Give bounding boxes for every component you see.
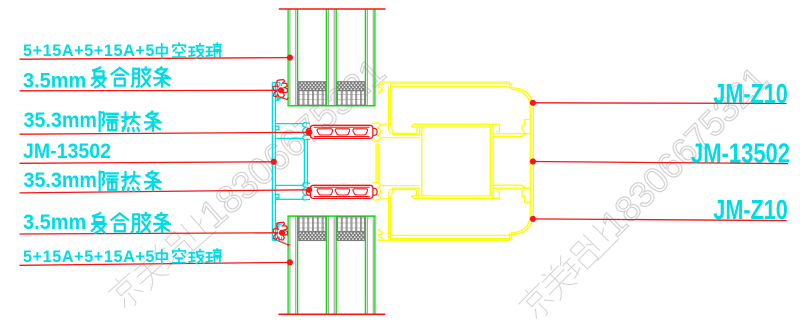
red gasket top (3.5mm composite) — [273, 80, 288, 98]
bottom glass top edge — [287, 215, 375, 217]
yellow bottom jaw links — [381, 185, 389, 199]
yellow profile bottom edge second line — [391, 233, 514, 239]
yellow left wall mid pair — [375, 143, 377, 183]
yellow profile top edge outer + corner step — [380, 82, 513, 88]
cyan top jaw gripping thermal break — [303, 123, 310, 140]
leader line label2 to top gasket — [20, 89, 279, 92]
svg-text:3.5mm: 3.5mm — [23, 211, 86, 235]
cyan wall notch 1 — [275, 97, 279, 101]
svg-text:JM-Z10: JM-Z10 — [713, 80, 788, 110]
cyan horizontal rib bottom — [275, 198, 303, 200]
watermark left diagonal 京美铝业18306675321 — [102, 51, 394, 316]
yellow T-flange bottom lip — [411, 196, 499, 198]
yellow bottom jaw claw — [372, 182, 381, 200]
cyan profile inner left wall — [274, 83, 276, 241]
bottom glass spacer block 2 — [337, 217, 364, 241]
yellow right wall pair — [530, 110, 533, 213]
yellow center web — [489, 127, 491, 196]
yellow lip right hook top — [496, 124, 499, 131]
cyan chamber JM-13502 — [275, 138, 304, 185]
yellow left wall arc joins top — [389, 127, 393, 135]
leader line label3 to top strip — [20, 132, 310, 134]
cyan horizontal rib top — [275, 123, 303, 125]
leader line JM-Z10 top — [533, 102, 787, 105]
leader line label5 to bottom strip — [20, 190, 310, 193]
bottom glass spacer block 1 — [298, 217, 325, 241]
svg-text:35.3mm: 35.3mm — [24, 110, 97, 133]
top glass break line (red) — [279, 8, 386, 10]
leader line label6 to bottom gasket — [20, 233, 279, 234]
red gasket top tail — [281, 97, 289, 99]
bottom glass break line (red) — [279, 313, 386, 315]
yellow snap hook right wall bottom — [522, 188, 530, 202]
svg-text:JM-13502: JM-13502 — [691, 138, 790, 169]
svg-text:3.5mm: 3.5mm — [23, 69, 86, 93]
cyan bottom arm and gasket pocket — [272, 224, 281, 240]
yellow left wall lower pair — [388, 195, 390, 239]
yellow top-right corner arc pair — [513, 88, 533, 110]
svg-text:JM-Z10: JM-Z10 — [713, 196, 788, 226]
yellow T-flange top left arms — [391, 133, 420, 134]
cyan chamber outer right wall — [306, 139, 308, 186]
yellow profile inner bottom line — [391, 234, 510, 235]
svg-text:35.3mm: 35.3mm — [24, 169, 97, 192]
yellow top jaw claw — [372, 123, 381, 141]
yellow profile inner top line — [391, 87, 510, 88]
yellow T-flange top neck — [417, 127, 420, 135]
yellow long rib bottom — [382, 185, 420, 187]
yellow left wall arc joins bottom — [389, 188, 393, 196]
leader line label4 to cyan wall — [20, 162, 274, 164]
yellow long rib top — [382, 137, 420, 139]
yellow top jaw links — [381, 123, 389, 138]
svg-text:5+15A+5+15A+5: 5+15A+5+15A+5 — [23, 248, 155, 266]
yellow bottom-right corner arc pair — [513, 213, 533, 235]
cyan profile outer left wall — [271, 83, 273, 241]
svg-text:5+15A+5+15A+5: 5+15A+5+15A+5 — [23, 42, 155, 60]
yellow top-left glazing hook — [379, 84, 384, 93]
yellow profile top edge second line — [391, 84, 514, 90]
leader line JM-Z10 bottom — [533, 219, 787, 221]
yellow T-flange bottom neck — [416, 188, 419, 196]
top glass bottom edge — [287, 105, 375, 107]
yellow T-flange bottom left arms — [391, 188, 419, 190]
top glass unit 5+15A+5+15A+5 panes — [287, 9, 289, 106]
svg-text:JM-13502: JM-13502 — [23, 139, 111, 163]
cyan wall notch 3 — [275, 194, 279, 198]
thermal break strip bottom 35.3mm — [310, 185, 373, 198]
yellow left wall upper pair — [388, 87, 390, 128]
yellow profile bottom edge outer + corner step — [378, 234, 514, 240]
red gasket bottom tail — [278, 241, 290, 247]
bottom glass unit 5+15A+5+15A+5 panes — [287, 216, 289, 314]
yellow right chamber bottom — [493, 185, 530, 188]
yellow T-flange top lip — [411, 124, 499, 127]
cyan top arm and gasket pocket — [272, 83, 281, 99]
leader line JM-13502 right — [533, 162, 788, 164]
top glass spacer block 1 — [298, 82, 325, 106]
thermal break strip top 35.3mm — [310, 125, 373, 138]
leader line label1 to top glass — [20, 58, 290, 60]
watermark right diagonal 京美铝业18306675321 — [512, 59, 776, 325]
yellow right chamber top — [493, 134, 530, 137]
top glass spacer block 2 — [337, 82, 364, 106]
yellow lip right hook bottom — [496, 191, 499, 198]
cyan wall notch 2 — [275, 126, 279, 130]
yellow bottom-left glazing hook — [379, 229, 384, 238]
cyan bottom jaw gripping thermal break — [303, 183, 310, 200]
cyan wall notch 4 — [275, 223, 279, 227]
yellow snap hook right wall top — [522, 120, 530, 134]
leader line label7 to bottom glass — [20, 262, 290, 265]
red gasket bottom (3.5mm composite) — [273, 222, 288, 240]
svg-text:18306675321: 18306675321 — [192, 51, 394, 237]
yellow big chamber box — [422, 127, 425, 196]
